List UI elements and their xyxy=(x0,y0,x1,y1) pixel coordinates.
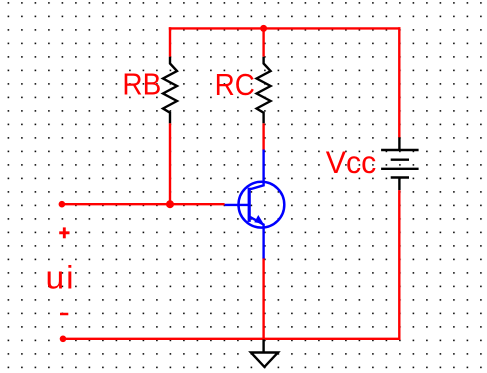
svg-text:ui: ui xyxy=(46,259,76,295)
svg-text:Vcc: Vcc xyxy=(326,145,376,181)
svg-text:RB: RB xyxy=(122,67,161,102)
svg-text:RC: RC xyxy=(215,68,255,103)
